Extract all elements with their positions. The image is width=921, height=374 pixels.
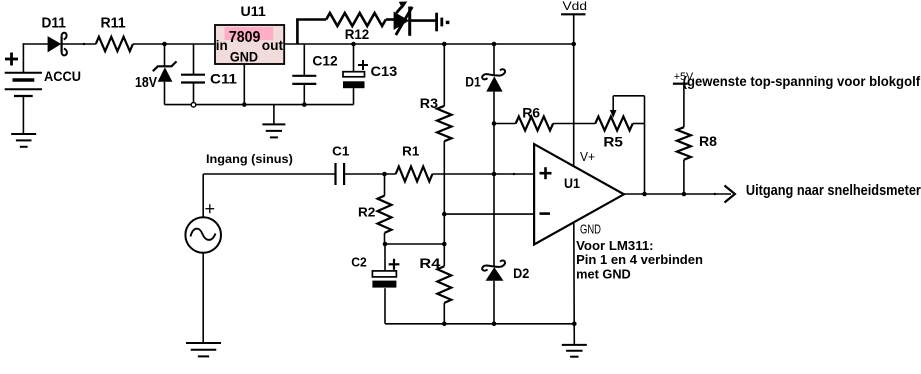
svg-text:C2: C2 (351, 255, 367, 270)
svg-text:Voor LM311:: Voor LM311: (576, 238, 654, 253)
svg-text:Ingang (sinus): Ingang (sinus) (206, 152, 293, 166)
svg-text:D2: D2 (513, 265, 529, 281)
svg-text:R12: R12 (345, 26, 370, 42)
svg-text:D11: D11 (42, 15, 66, 32)
svg-text:7809: 7809 (229, 29, 260, 46)
svg-text:Pin 1 en 4 verbinden: Pin 1 en 4 verbinden (576, 252, 703, 267)
svg-text:C1: C1 (332, 144, 349, 159)
svg-text:C13: C13 (371, 63, 398, 79)
svg-text:R3: R3 (420, 95, 438, 111)
svg-text:R8: R8 (699, 133, 717, 149)
svg-text:V+: V+ (580, 149, 595, 164)
svg-text:R11: R11 (101, 15, 126, 32)
svg-text:out: out (262, 37, 284, 53)
svg-text:C12: C12 (312, 53, 338, 69)
svg-text:D1: D1 (465, 74, 481, 90)
svg-text:R6: R6 (522, 105, 540, 121)
svg-text:in: in (216, 37, 228, 53)
svg-text:GND: GND (230, 49, 258, 65)
svg-text:U1: U1 (564, 175, 580, 191)
svg-text:18V: 18V (135, 74, 157, 91)
svg-text:GND: GND (580, 223, 601, 237)
svg-text:Uitgang naar snelheidsmeter: Uitgang naar snelheidsmeter (746, 182, 921, 199)
svg-text:R2: R2 (358, 205, 375, 220)
svg-text:C11: C11 (210, 71, 237, 87)
svg-text:U11: U11 (241, 3, 266, 19)
svg-text:ACCU: ACCU (44, 68, 81, 84)
svg-text:R4: R4 (419, 255, 440, 271)
svg-text:met GND: met GND (576, 267, 631, 282)
svg-text:Vdd: Vdd (563, 0, 588, 13)
svg-text:R1: R1 (402, 144, 419, 159)
svg-text:(gewenste top-spanning voor bl: (gewenste top-spanning voor blokgolf (683, 73, 921, 89)
svg-text:R5: R5 (603, 134, 623, 150)
